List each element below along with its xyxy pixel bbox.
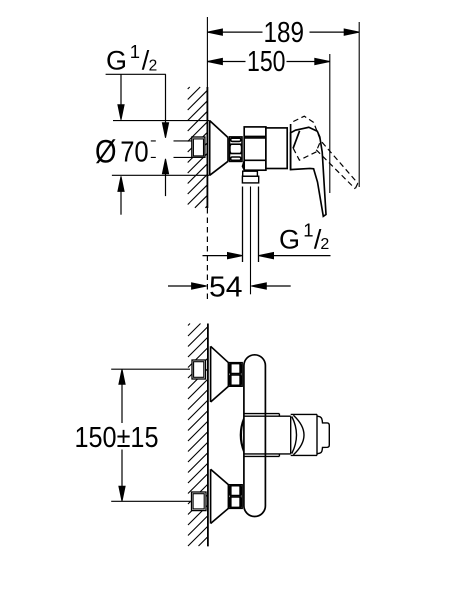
extension line lower inlet axis	[111, 500, 190, 502]
lower escutcheon cone (bottom view)	[211, 469, 229, 523]
svg-text:2: 2	[149, 57, 158, 74]
upper wall union square (bottom view)	[192, 360, 206, 379]
extension line flange bottom (dia 70)	[112, 174, 210, 176]
lever/dome intersection line	[293, 131, 300, 149]
wall face dashed continuation	[206, 208, 208, 303]
dimension 150	[207, 61, 329, 63]
escutcheon cone (top view)	[210, 121, 228, 176]
extension line thread bottom	[151, 156, 192, 158]
rail for thread (lower, up arrow)	[162, 159, 168, 174]
wall union square (top view)	[192, 137, 205, 157]
body capsule (stadium)	[244, 355, 266, 517]
body back bulge arc (left of capsule)	[240, 418, 244, 452]
lever handle (solid)	[291, 127, 326, 216]
svg-text:1: 1	[303, 220, 313, 241]
pipe centre line	[250, 187, 252, 295]
rail for diameter 70 (lower, up arrow)	[118, 176, 124, 191]
svg-text:70: 70	[120, 137, 149, 169]
leader line under G 1/2	[106, 73, 166, 75]
svg-text:1: 1	[130, 41, 140, 62]
upper hex nut (bottom view)	[229, 363, 243, 387]
extension line upper inlet axis	[111, 368, 190, 370]
lower hex nut (bottom view)	[229, 485, 243, 509]
svg-text:150: 150	[247, 46, 286, 78]
svg-text:54: 54	[209, 272, 243, 304]
hex nut (top view)	[230, 137, 243, 162]
dimension 189	[207, 31, 359, 33]
handle dome ring edge	[290, 124, 292, 170]
svg-text:G: G	[279, 224, 300, 254]
wall hatching (top view)	[188, 87, 208, 208]
outlet flange piece 2	[242, 176, 258, 183]
wall face line (top view)	[206, 87, 208, 208]
upper escutcheon cone (bottom view)	[211, 346, 229, 402]
handle end cap with tab (bottom view)	[317, 416, 329, 453]
extension line right for 150	[329, 54, 331, 193]
extension line thread top	[151, 140, 192, 142]
lever raised position (dashed)	[293, 116, 358, 189]
hose connection pipe walls	[243, 187, 259, 263]
svg-text:G: G	[106, 46, 127, 76]
G1/2 leader rail down to thread-top line	[165, 74, 167, 123]
cartridge housing behind capsule	[244, 414, 291, 457]
dimension 150 plus/minus 15	[119, 369, 125, 384]
handle dome (bottom view)	[291, 414, 317, 455]
G1/2 pointer arrows at pipe	[203, 255, 228, 257]
extension line right for 189	[358, 22, 360, 187]
outlet flange piece 1	[243, 171, 258, 176]
label G 1/2 (lower)	[279, 220, 329, 255]
wall hatching (bottom view)	[188, 324, 208, 547]
dimension 54	[168, 285, 192, 287]
label G 1/2 (top)	[106, 41, 157, 76]
wall face line (bottom view)	[207, 324, 209, 547]
svg-text:189: 189	[264, 17, 305, 49]
valve body block A (top view)	[243, 127, 266, 170]
extension line flange top (dia 70)	[113, 120, 210, 122]
lower wall union square (bottom view)	[192, 492, 207, 511]
main body block B (top view)	[266, 128, 287, 169]
svg-text:150±15: 150±15	[75, 422, 159, 454]
rail for diameter 70 (upper)	[120, 74, 122, 106]
svg-text:Ø: Ø	[95, 133, 117, 169]
extension line left (wall, for 189/150)	[206, 17, 208, 87]
svg-text:2: 2	[320, 236, 329, 253]
